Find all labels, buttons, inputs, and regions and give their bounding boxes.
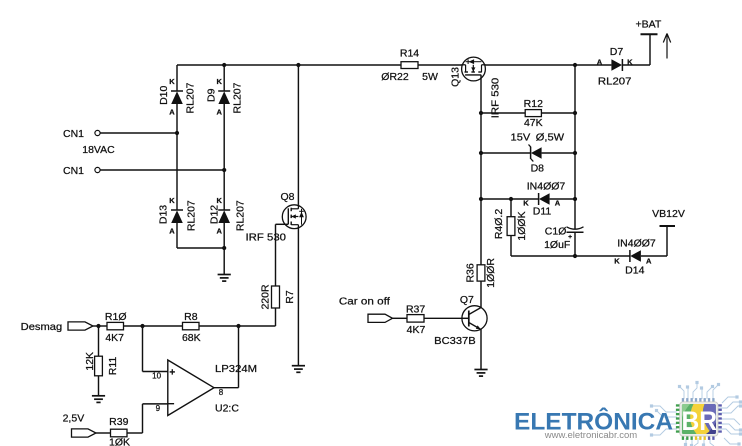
wire left bridge rail top (node to D10) xyxy=(176,65,178,91)
svg-text:68K: 68K xyxy=(182,332,201,344)
wire top rail to Q8 drain xyxy=(297,65,299,205)
svg-text:5W: 5W xyxy=(422,71,438,83)
svg-text:IN4ØØ7: IN4ØØ7 xyxy=(527,180,566,192)
svg-text:RL207: RL207 xyxy=(185,82,197,113)
svg-text:D11: D11 xyxy=(533,205,552,217)
wire R37 to Q7 base xyxy=(424,317,462,319)
svg-text:CN1: CN1 xyxy=(63,165,84,177)
diode D8 zener 15V 0,5W xyxy=(531,147,542,159)
svg-text:D12: D12 xyxy=(209,205,221,224)
node C10 bottom / bottom row xyxy=(573,254,577,258)
wire D11 row right xyxy=(550,198,575,200)
svg-text:47K: 47K xyxy=(524,117,543,129)
wire R14 to Q13 xyxy=(418,64,462,66)
wire R40.2 down to bottom row xyxy=(510,236,512,257)
svg-text:A: A xyxy=(169,227,175,236)
wire 2,5V to R39 xyxy=(96,432,111,434)
wire D7 cathode to +BAT corner xyxy=(622,64,650,66)
transistor Q13 IRF 530 xyxy=(462,57,486,81)
node CN1 bottom / second rail xyxy=(222,168,226,172)
wire D12 anode to bridge bottom / ground stem xyxy=(223,223,225,275)
svg-text:1ØØK: 1ØØK xyxy=(516,211,528,240)
node top rail / right ladder rail xyxy=(573,63,577,67)
wire R36 to Q7 collector xyxy=(480,281,482,307)
svg-text:R14: R14 xyxy=(400,48,419,60)
ground below Q8 xyxy=(292,366,305,373)
svg-text:K: K xyxy=(216,77,222,86)
wire R7 to opamp output net xyxy=(275,308,277,326)
svg-text:A: A xyxy=(597,58,603,67)
svg-text:D9: D9 xyxy=(205,88,217,102)
ground below R11 xyxy=(92,396,105,403)
node left rail / D11 xyxy=(479,197,483,201)
wire R11 to ground xyxy=(98,376,100,396)
node right rail / D11 xyxy=(573,197,577,201)
svg-text:BC337B: BC337B xyxy=(434,335,476,347)
svg-text:VB12V: VB12V xyxy=(652,208,685,220)
svg-text:2,5V: 2,5V xyxy=(63,412,85,424)
svg-text:1ØK: 1ØK xyxy=(109,437,130,446)
svg-text:IN4ØØ7: IN4ØØ7 xyxy=(617,237,656,249)
svg-text:K: K xyxy=(169,77,175,86)
svg-text:R7: R7 xyxy=(284,290,296,304)
svg-text:ØR22: ØR22 xyxy=(381,71,409,83)
diode D10 RL207 xyxy=(171,91,183,104)
svg-text:A: A xyxy=(216,108,222,117)
svg-text:IRF 530: IRF 530 xyxy=(246,231,287,243)
wire R12 row right xyxy=(541,112,575,114)
node R8 / output / R7 xyxy=(236,324,240,328)
diode D13 RL207 xyxy=(171,210,183,223)
wire D8 row left xyxy=(481,152,531,154)
wire R10 to R8 xyxy=(124,325,183,327)
wire bottom row to D14 xyxy=(511,255,630,257)
wire D9 anode down through CN1 node to D12 xyxy=(223,104,225,210)
wire D11 row node down to R40.2 xyxy=(510,199,512,217)
svg-text:K: K xyxy=(614,257,620,266)
svg-text:18VAC: 18VAC xyxy=(82,144,115,156)
svg-text:D8: D8 xyxy=(531,163,545,175)
diode D7 RL207 xyxy=(611,59,622,71)
up arrow beside +BAT xyxy=(666,34,668,59)
node R10 / R8 / op-amp plus xyxy=(140,324,144,328)
connector Car on off xyxy=(368,314,393,322)
diode D14 IN4007 xyxy=(630,250,641,262)
svg-text:BR: BR xyxy=(682,406,718,436)
node left rail / D8 xyxy=(479,151,483,155)
svg-text:+: + xyxy=(169,367,175,378)
svg-text:RL207: RL207 xyxy=(231,82,243,113)
capacitor C10 10uF xyxy=(567,227,584,229)
wire R39 to op-amp minus input xyxy=(127,432,143,434)
resistor R14 0R22 5W xyxy=(401,62,418,69)
svg-text:Desmag: Desmag xyxy=(21,321,63,333)
svg-text:LP324M: LP324M xyxy=(215,363,257,375)
svg-text:10: 10 xyxy=(152,372,161,381)
resistor R12 47K xyxy=(525,110,541,117)
resistor R8 68K xyxy=(183,322,200,329)
resistor R37 4K7 xyxy=(407,315,424,323)
svg-text:K: K xyxy=(169,196,175,205)
diode D9 RL207 xyxy=(218,91,230,104)
svg-text:12K: 12K xyxy=(84,352,96,371)
wire Q13 to node at right rail xyxy=(485,64,612,66)
svg-text:9: 9 xyxy=(156,404,161,413)
svg-text:Q8: Q8 xyxy=(280,191,294,203)
svg-text:D10: D10 xyxy=(158,86,170,105)
svg-text:+BAT: +BAT xyxy=(636,19,662,31)
transistor Q7 BC337B xyxy=(462,306,487,331)
svg-text:220R: 220R xyxy=(260,284,272,310)
svg-text:R37: R37 xyxy=(406,303,425,315)
svg-text:R4Ø.2: R4Ø.2 xyxy=(493,209,505,240)
svg-text:K: K xyxy=(523,199,529,208)
connector CN1 bottom pin circle xyxy=(95,167,100,172)
wire Q13 gate down left ladder rail xyxy=(480,75,482,265)
connector Desmag xyxy=(68,322,93,330)
ground below Q7 xyxy=(474,370,487,377)
svg-text:8: 8 xyxy=(219,388,224,397)
wire main top rail xyxy=(177,64,401,66)
svg-text:C1Ø: C1Ø xyxy=(545,226,567,238)
power bar +BAT xyxy=(641,33,658,35)
svg-text:15V Ø,5W: 15V Ø,5W xyxy=(511,131,565,143)
resistor R39 10K xyxy=(111,429,128,437)
node bridge bottom / ground xyxy=(222,246,226,250)
ground below bridge xyxy=(218,275,231,282)
wire Q7 emitter to ground xyxy=(480,330,482,370)
svg-text:CN1: CN1 xyxy=(63,128,84,140)
svg-text:D13: D13 xyxy=(158,205,170,224)
wire D11 row left xyxy=(481,198,539,200)
svg-text:RL207: RL207 xyxy=(186,200,198,231)
svg-text:D14: D14 xyxy=(625,265,644,277)
wire D8 row right xyxy=(542,152,575,154)
svg-text:RL207: RL207 xyxy=(235,200,247,231)
node right rail / D8 xyxy=(573,151,577,155)
svg-text:A: A xyxy=(169,108,175,117)
svg-text:4K7: 4K7 xyxy=(407,324,426,336)
svg-text:A: A xyxy=(216,227,222,236)
diode D11 IN4007 xyxy=(539,193,550,205)
connector CN1 top pin circle xyxy=(95,130,100,135)
wire D10 anode down through CN1 node to D13 xyxy=(176,104,178,210)
resistor R36 100R xyxy=(477,265,485,281)
node D11 row / R40.2 xyxy=(509,197,513,201)
svg-text:Q13: Q13 xyxy=(450,67,462,87)
svg-text:R8: R8 xyxy=(184,311,198,323)
resistor R11 12K xyxy=(95,356,103,376)
node top rail / Q8 branch xyxy=(296,63,300,67)
svg-text:Car on off: Car on off xyxy=(339,295,390,307)
resistor R7 220R xyxy=(272,286,280,308)
svg-text:R39: R39 xyxy=(109,416,128,428)
svg-text:1ØuF: 1ØuF xyxy=(544,239,570,251)
wire CN1 bottom to second bridge rail xyxy=(100,169,224,171)
svg-text:A: A xyxy=(555,199,561,208)
wire CN1 top to bridge xyxy=(100,132,177,134)
svg-text:U2:C: U2:C xyxy=(215,403,239,415)
svg-text:RL207: RL207 xyxy=(598,76,632,88)
svg-text:R36: R36 xyxy=(465,263,477,282)
svg-text:R11: R11 xyxy=(107,357,119,376)
node top rail / D9 branch xyxy=(222,63,226,67)
wire node to R11 xyxy=(98,326,100,356)
wire op-amp output xyxy=(214,387,239,389)
svg-text:D7: D7 xyxy=(610,46,624,58)
svg-text:R12: R12 xyxy=(524,98,543,110)
diode D12 RL207 xyxy=(218,210,230,223)
node CN1 top / left rail xyxy=(175,131,179,135)
svg-text:4K7: 4K7 xyxy=(105,332,124,344)
resistor R40.2 100K xyxy=(507,217,515,236)
wire D13 anode to bridge bottom xyxy=(176,223,178,248)
svg-text:www.eletronicabr.com: www.eletronicabr.com xyxy=(544,430,637,441)
svg-text:A: A xyxy=(646,257,652,266)
power bar VB12V xyxy=(660,225,676,227)
op-amp U2:C LP324M xyxy=(168,360,214,416)
wire Q8 source to ground xyxy=(297,229,299,366)
connector 2,5V xyxy=(72,429,97,437)
wire node to op-amp plus input xyxy=(142,326,144,372)
resistor R10 4K7 xyxy=(107,322,124,329)
wire R8 to R7 corner xyxy=(199,325,276,327)
wire Q8 gate to R7 xyxy=(276,223,289,225)
wire D14 anode to VB12V xyxy=(641,255,667,257)
wire Desmag to R10 xyxy=(93,325,107,327)
svg-text:R1Ø: R1Ø xyxy=(105,311,127,323)
wire R12 row left xyxy=(481,112,525,114)
transistor Q8 IRF 530 xyxy=(282,205,306,229)
svg-text:1ØØR: 1ØØR xyxy=(485,258,497,288)
svg-text:K: K xyxy=(216,196,222,205)
wire right ladder rail xyxy=(574,65,576,229)
wire bridge bottom xyxy=(177,247,224,249)
node Desmag / R10 / R11 xyxy=(96,324,100,328)
svg-text:IRF 530: IRF 530 xyxy=(489,78,501,119)
node right rail / R12 xyxy=(573,111,577,115)
svg-text:K: K xyxy=(627,58,633,67)
wire connector to R37 xyxy=(393,317,408,319)
node left rail / R12 xyxy=(479,111,483,115)
wire +BAT stem xyxy=(649,34,651,65)
wire second bridge rail top (node to D9) xyxy=(223,65,225,91)
logo EletronicaBR xyxy=(514,381,742,446)
svg-text:Q7: Q7 xyxy=(460,294,474,306)
